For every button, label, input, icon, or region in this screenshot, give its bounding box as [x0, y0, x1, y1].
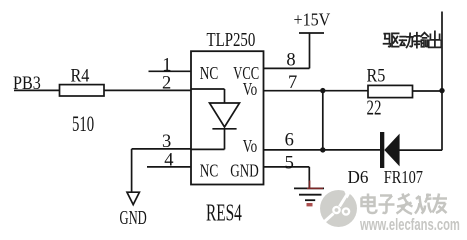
svg-text:4: 4 [164, 150, 173, 170]
svg-text:TLP250: TLP250 [207, 28, 256, 51]
svg-text:510: 510 [72, 112, 94, 137]
svg-text:GND: GND [230, 162, 258, 181]
svg-text:8: 8 [286, 51, 295, 71]
svg-text:5: 5 [285, 154, 294, 174]
svg-text:7: 7 [288, 73, 297, 93]
svg-text:3: 3 [162, 132, 171, 152]
svg-text:1: 1 [162, 55, 171, 75]
svg-text:R4: R4 [71, 64, 90, 86]
svg-text:D6: D6 [348, 166, 369, 187]
svg-text:www.elecfans.com: www.elecfans.com [359, 216, 460, 235]
svg-text:NC: NC [200, 64, 219, 83]
svg-text:22: 22 [367, 96, 382, 119]
svg-text:6: 6 [285, 130, 294, 150]
svg-text:PB3: PB3 [13, 72, 41, 94]
svg-text:+15V: +15V [294, 10, 331, 30]
svg-text:Vo: Vo [243, 137, 257, 156]
svg-text:2: 2 [162, 74, 171, 94]
svg-text:R5: R5 [367, 64, 386, 86]
svg-text:Vo: Vo [243, 80, 257, 99]
svg-text:NC: NC [200, 162, 219, 181]
svg-text:RES4: RES4 [206, 200, 242, 226]
svg-text:FR107: FR107 [384, 166, 423, 187]
svg-text:GND: GND [120, 206, 147, 229]
